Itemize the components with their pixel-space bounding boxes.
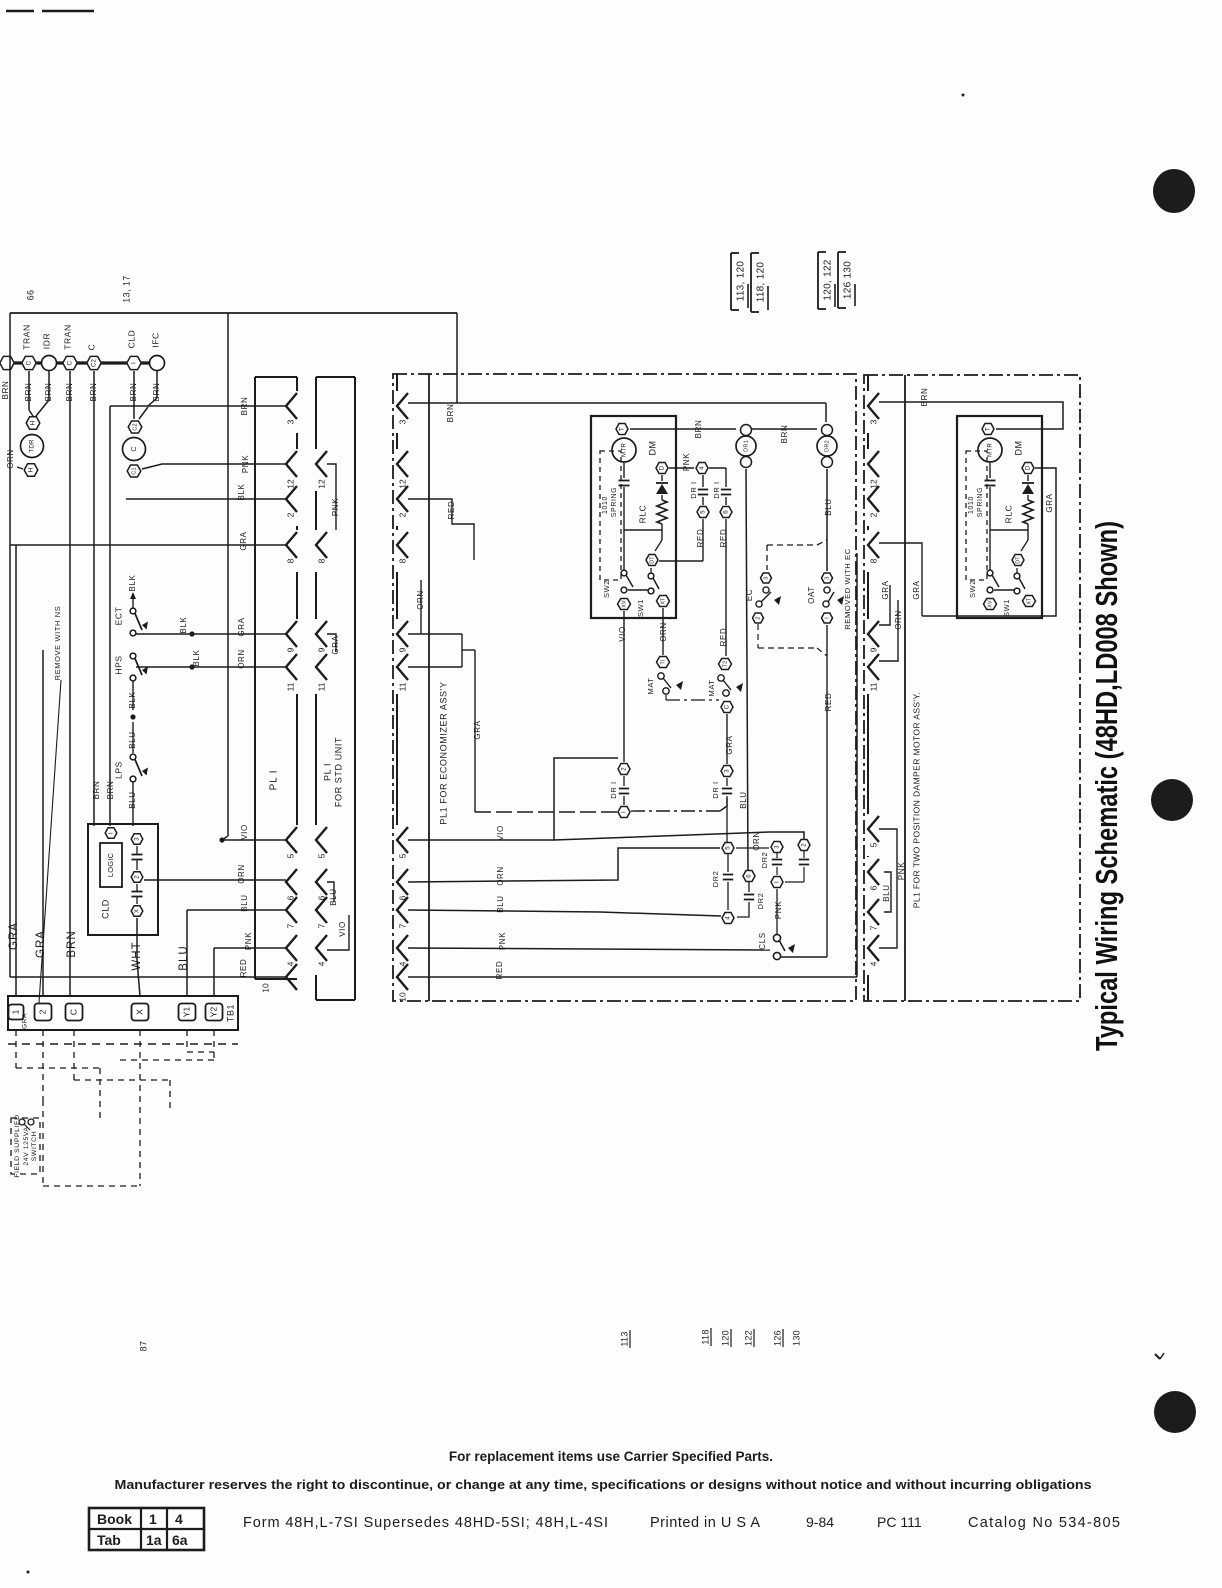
- hex 5 node: [697, 507, 709, 518]
- svg-text:3: 3: [135, 837, 141, 841]
- svg-text:I: I: [825, 617, 831, 619]
- svg-text:SW2: SW2: [968, 580, 977, 598]
- svg-text:113: 113: [619, 1331, 629, 1346]
- svg-text:130: 130: [791, 1330, 801, 1346]
- damper connector broken edge: [867, 375, 869, 391]
- svg-text:FIELD SUPPLIED: FIELD SUPPLIED: [14, 1114, 21, 1177]
- svg-text:SPRING: SPRING: [977, 487, 984, 517]
- wire motor to resistor bottom: [990, 529, 1028, 531]
- svg-text:1a: 1a: [146, 1532, 162, 1548]
- svg-text:66: 66: [25, 290, 35, 301]
- terminal 1: [9, 1005, 24, 1020]
- terminal D hex: [656, 463, 668, 474]
- svg-text:I: I: [131, 362, 138, 364]
- hex 1 below OAT: [822, 613, 833, 623]
- svg-text:6a: 6a: [172, 1532, 188, 1548]
- svg-text:2: 2: [285, 512, 295, 517]
- svg-text:9-84: 9-84: [806, 1514, 834, 1530]
- economizer connector broken edge: [396, 374, 398, 391]
- svg-text:DT: DT: [1015, 556, 1021, 564]
- terminal Y1: [179, 1004, 196, 1021]
- svg-text:7: 7: [316, 923, 326, 928]
- dashed wiring below TB1 - terminal X drop: [139, 1030, 141, 1186]
- dashed line below TB1: [8, 1043, 238, 1045]
- svg-text:LOGIC: LOGIC: [106, 852, 115, 877]
- svg-text:DR I: DR I: [609, 781, 618, 798]
- damper wire pin6 pin7 bracket: [884, 872, 891, 912]
- connector PL1 std broken edge: [315, 377, 317, 449]
- svg-text:126 130: 126 130: [843, 261, 854, 299]
- wire XT down ORN to MAT1: [662, 608, 664, 655]
- hex 1 node lower: [618, 807, 630, 818]
- DR1 contact capacitor a: [702, 475, 704, 487]
- svg-text:GRA: GRA: [8, 922, 20, 950]
- hex 4 node bottom: [722, 913, 734, 924]
- svg-text:VIO: VIO: [618, 626, 627, 642]
- svg-text:XV: XV: [987, 600, 993, 608]
- svg-text:7: 7: [397, 923, 407, 928]
- hex 3 node mid: [721, 766, 733, 777]
- svg-text:MAT: MAT: [707, 679, 716, 696]
- svg-text:C: C: [86, 344, 96, 351]
- svg-text:BLU: BLU: [128, 731, 137, 748]
- svg-text:DR2: DR2: [711, 871, 720, 888]
- hex 6 node bottom: [743, 871, 755, 882]
- terminal C: [66, 1004, 83, 1021]
- terminal T hex: [982, 424, 994, 435]
- svg-text:IFC: IFC: [150, 332, 160, 348]
- svg-text:11: 11: [397, 682, 407, 691]
- eco wire pin10 RED: [408, 976, 857, 978]
- svg-text:RED: RED: [447, 501, 456, 520]
- svg-text:GRA: GRA: [331, 635, 340, 654]
- svg-text:BRN: BRN: [240, 397, 249, 416]
- box LOGIC: [100, 843, 122, 887]
- wire pin3 down into DR2: [825, 403, 827, 422]
- svg-text:122: 122: [743, 1330, 753, 1346]
- terminal T hex: [616, 424, 628, 435]
- dashed wiring below TB1 - terminal Y1 drop: [186, 1030, 188, 1052]
- motor MTR: [612, 438, 636, 462]
- svg-text:I: I: [775, 881, 781, 883]
- svg-text:PL I: PL I: [269, 770, 280, 791]
- DR2 capacitor under hex5: [727, 854, 729, 872]
- svg-text:PNK: PNK: [244, 932, 253, 950]
- svg-text:10: 10: [260, 983, 270, 993]
- svg-text:BLU: BLU: [128, 791, 137, 808]
- terminal C hex lower: [721, 702, 733, 713]
- svg-text:ORN: ORN: [659, 622, 668, 642]
- node hex 1 in CLD box: [105, 828, 117, 838]
- svg-text:SPRING: SPRING: [611, 487, 618, 517]
- BLU jumper std pin 6: [327, 882, 334, 902]
- svg-text:TDR: TDR: [29, 439, 36, 453]
- wire GRA to PL1 pin 8: [10, 544, 286, 546]
- svg-text:RED: RED: [719, 529, 728, 548]
- svg-text:For replacement items use Carr: For replacement items use Carrier Specif…: [449, 1449, 773, 1464]
- contactor coil cluster C2 C C1: [128, 421, 142, 433]
- svg-text:BLK: BLK: [128, 574, 137, 591]
- svg-text:OAT: OAT: [807, 586, 816, 604]
- eco pins 9 11 junction: [408, 633, 462, 635]
- svg-text:C1: C1: [131, 467, 137, 475]
- wire branch down to CLD box hex 1: [110, 405, 148, 407]
- svg-text:BLK: BLK: [237, 483, 246, 500]
- svg-text:Book: Book: [97, 1511, 132, 1527]
- relay DR1 stack: [741, 425, 752, 436]
- connector PL1 broken edge: [296, 377, 298, 391]
- wire DR2 bottom drop BLU to OAT: [826, 469, 828, 571]
- svg-text:ORN: ORN: [237, 864, 246, 884]
- svg-text:I: I: [622, 811, 628, 813]
- svg-text:DR2: DR2: [760, 852, 769, 869]
- page tick mark top left: [6, 10, 34, 13]
- terminal XT hex: [1023, 596, 1036, 607]
- svg-text:1010: 1010: [602, 496, 609, 514]
- svg-text:6: 6: [868, 885, 878, 890]
- svg-text:I: I: [109, 832, 115, 834]
- svg-text:8: 8: [397, 558, 407, 563]
- EC OAT dashed box: [766, 545, 768, 570]
- svg-text:RLC: RLC: [1003, 505, 1013, 524]
- svg-text:12: 12: [316, 479, 326, 489]
- book tab table: [89, 1508, 204, 1550]
- svg-text:5: 5: [868, 842, 878, 847]
- diode: [1027, 475, 1029, 481]
- terminal DT hex: [1012, 555, 1024, 566]
- svg-text:ORN: ORN: [894, 610, 903, 630]
- PNK jumper on std pin 12: [327, 464, 336, 530]
- svg-text:MTR: MTR: [987, 443, 994, 457]
- terminal T2 hex: [719, 659, 732, 670]
- svg-text:CLD: CLD: [100, 899, 110, 919]
- svg-text:1010: 1010: [968, 496, 975, 514]
- wire stub above ECT with arrow: [132, 594, 134, 608]
- wire C2 down to CLD box BRN: [93, 371, 95, 826]
- relay TDR with H contacts: [26, 417, 40, 429]
- wire LPS down to CLD box: [132, 782, 134, 826]
- svg-text:BLK: BLK: [128, 691, 137, 708]
- svg-text:XT: XT: [660, 597, 666, 605]
- terminal T1 hex: [657, 657, 670, 668]
- svg-text:BRN: BRN: [446, 404, 455, 423]
- wire DR1 bottom long drop BLU: [746, 469, 748, 870]
- svg-text:RED: RED: [824, 693, 833, 712]
- svg-text:4: 4: [868, 961, 878, 966]
- svg-text:TRAN: TRAN: [21, 324, 31, 350]
- svg-text:4: 4: [700, 466, 706, 470]
- svg-text:118: 118: [700, 1329, 710, 1344]
- motor MTR: [978, 438, 1002, 462]
- svg-text:ECT: ECT: [113, 607, 123, 626]
- 24v bus wire: [6, 361, 164, 364]
- svg-text:ORN: ORN: [237, 649, 246, 669]
- svg-text:H: H: [28, 467, 35, 472]
- wire hex6 down RED to MAT2: [725, 519, 727, 656]
- svg-text:CLD: CLD: [126, 330, 136, 349]
- svg-text:C2: C2: [132, 423, 138, 431]
- dashed wiring below TB1 - terminal 1 drop: [15, 1030, 17, 1068]
- contactor C (TRAN): [22, 356, 36, 369]
- svg-text:87: 87: [138, 1341, 148, 1352]
- svg-text:IDR: IDR: [41, 333, 51, 349]
- svg-text:7: 7: [285, 923, 295, 928]
- svg-text:DM: DM: [1013, 441, 1023, 456]
- dashed wire below EC to OAT drop: [757, 624, 759, 648]
- wire hex1 down PNK to CLS: [776, 889, 778, 934]
- terminal X: [132, 1004, 149, 1021]
- svg-text:PC 111: PC 111: [877, 1514, 922, 1530]
- svg-text:2: 2: [622, 767, 628, 771]
- dashed switch box FIELD SUPPLIED: [11, 1118, 40, 1174]
- stray speck bottom left: [27, 1571, 30, 1574]
- dash-dot wire left of hex1: [475, 811, 617, 813]
- trunk right vertical wire to economizer pin 3: [456, 313, 458, 403]
- reference bracket 126 130: [837, 252, 839, 308]
- wire BRN to PL1 pin 3: [148, 405, 286, 407]
- svg-text:4: 4: [726, 916, 732, 920]
- svg-text:RED: RED: [719, 628, 728, 647]
- svg-text:13, 17: 13, 17: [121, 275, 131, 302]
- wire X hex down to TB1 X terminal: [136, 918, 138, 960]
- reference bracket 113, 120: [730, 253, 732, 310]
- svg-text:DR I: DR I: [711, 781, 720, 798]
- stray speck top middle: [962, 94, 965, 97]
- svg-text:VIO: VIO: [338, 921, 347, 937]
- svg-text:PNK: PNK: [682, 453, 691, 471]
- svg-text:X: X: [134, 1009, 144, 1015]
- connector PL1 outline: [254, 377, 256, 979]
- svg-text:2: 2: [756, 616, 762, 619]
- svg-text:6: 6: [747, 874, 753, 878]
- wire D hex to hex 4 PNK: [669, 467, 694, 469]
- svg-text:5: 5: [701, 510, 707, 514]
- junction dot BLK on pin9 wire: [189, 631, 194, 636]
- eco wire pin3 BRN: [408, 402, 826, 404]
- svg-text:126: 126: [772, 1330, 782, 1346]
- DR2 capacitor under hex3: [776, 853, 778, 858]
- registration dot 1: [1153, 169, 1195, 213]
- svg-text:11: 11: [868, 682, 878, 691]
- svg-text:5: 5: [285, 853, 295, 858]
- contactor C (TRAN) 2: [63, 356, 77, 369]
- damper wire D hex GRA loop: [922, 468, 1056, 616]
- svg-text:XV: XV: [621, 600, 627, 608]
- trunk left vertical wire: [9, 313, 11, 977]
- DR2 capacitor under hex6: [748, 882, 750, 892]
- wire GRA to terminal 2: [42, 650, 44, 996]
- svg-text:11: 11: [285, 682, 295, 691]
- svg-text:DR2: DR2: [824, 440, 830, 452]
- junction dot BLK on pin11 wire: [189, 664, 194, 669]
- damper inner solid rail: [904, 375, 906, 1001]
- registration dot 2: [1151, 779, 1193, 821]
- svg-text:3: 3: [285, 419, 295, 424]
- svg-text:GRA: GRA: [912, 580, 921, 599]
- svg-text:TRAN: TRAN: [62, 324, 72, 350]
- svg-text:118, 120: 118, 120: [756, 262, 767, 303]
- svg-text:7: 7: [868, 925, 878, 930]
- svg-text:2: 2: [802, 843, 808, 847]
- svg-text:3: 3: [825, 576, 831, 579]
- wire HPS to PL1 pin 11 ORN: [136, 666, 286, 668]
- eco RED jumper pin2: [408, 499, 474, 560]
- svg-text:RLC: RLC: [637, 505, 647, 524]
- wire C1 to PL1 pin 12 PNK: [142, 464, 286, 469]
- economizer box border: [393, 374, 856, 1001]
- svg-text:ORN: ORN: [496, 866, 505, 886]
- connector PL1 pins: [286, 393, 297, 419]
- svg-text:DR I: DR I: [689, 481, 698, 498]
- eco wire T hex to DR1: [630, 428, 736, 430]
- svg-text:PL1 FOR TWO POSITION DAMPER MO: PL1 FOR TWO POSITION DAMPER MOTOR ASS'Y.: [911, 692, 921, 908]
- svg-text:3: 3: [868, 419, 878, 424]
- svg-text:8: 8: [285, 558, 295, 563]
- svg-text:PNK: PNK: [774, 901, 783, 919]
- svg-text:HPS: HPS: [113, 655, 123, 674]
- damper motor box border: [864, 375, 1080, 1001]
- node hex 2 in CLD box: [131, 872, 143, 882]
- svg-text:REMOVE WITH NS: REMOVE WITH NS: [53, 606, 62, 681]
- svg-text:9: 9: [285, 647, 295, 652]
- svg-text:BLU: BLU: [882, 884, 891, 901]
- wire IDR down to TDR relay: [48, 371, 50, 400]
- wire CLD hex down to C contactor coil: [133, 371, 135, 419]
- svg-text:VIO: VIO: [496, 825, 505, 841]
- spring return dashed box: [966, 451, 987, 580]
- svg-text:MTR: MTR: [621, 443, 628, 457]
- svg-text:GRA: GRA: [239, 531, 248, 550]
- svg-text:5: 5: [726, 846, 732, 850]
- dashed link horizontal 1068: [16, 1067, 100, 1069]
- svg-text:GRA: GRA: [22, 1013, 29, 1029]
- wire OAT hex1 down RED: [826, 625, 828, 957]
- svg-text:BLU: BLU: [240, 894, 249, 911]
- hex 2 node bottom row: [798, 840, 810, 851]
- wire C hex down GRA: [726, 714, 728, 764]
- svg-text:4: 4: [285, 961, 295, 966]
- svg-text:GRA: GRA: [725, 735, 734, 754]
- svg-text:RED: RED: [239, 959, 248, 978]
- svg-text:Printed in U S A: Printed in U S A: [650, 1515, 760, 1531]
- svg-text:6: 6: [724, 510, 730, 514]
- svg-text:3: 3: [764, 576, 770, 579]
- capacitor in CLD box lower: [132, 891, 143, 893]
- svg-text:BRN: BRN: [66, 930, 78, 957]
- terminal D hex: [1022, 463, 1034, 474]
- wire hex2 to PL1 pin 6 ORN: [144, 879, 286, 881]
- hex 6 node: [720, 507, 732, 518]
- svg-text:3: 3: [775, 845, 781, 849]
- eco GRA drop wire: [474, 650, 476, 812]
- svg-text:ORN: ORN: [416, 590, 425, 610]
- svg-text:BRN: BRN: [780, 425, 789, 444]
- wire RED to PL1 pin 10: [10, 976, 286, 978]
- svg-text:Manufacturer reserves the righ: Manufacturer reserves the right to disco…: [115, 1477, 1092, 1492]
- svg-text:PL1 FOR ECONOMIZER ASS'Y: PL1 FOR ECONOMIZER ASS'Y: [438, 681, 448, 824]
- connector PL1 std pins: [316, 451, 327, 477]
- svg-text:DM: DM: [647, 441, 657, 456]
- svg-text:DR I: DR I: [712, 481, 721, 498]
- damper wire pin8 GRA: [879, 543, 922, 616]
- terminal 2: [35, 1004, 52, 1021]
- dashed wiring below TB1 - terminal 2 drop: [42, 1030, 44, 1100]
- node IDR: [42, 356, 57, 371]
- svg-text:Typical Wiring Schematic (48HD: Typical Wiring Schematic (48HD,LD008 Sho…: [1089, 521, 1124, 1051]
- svg-text:2: 2: [868, 512, 878, 517]
- DR1 capacitor mid: [726, 778, 728, 786]
- hex 2 node lower: [618, 764, 630, 775]
- wire GRA to terminal 1: [15, 545, 17, 996]
- svg-text:BRN: BRN: [106, 781, 115, 800]
- svg-text:GRA: GRA: [881, 580, 890, 599]
- svg-text:BLK: BLK: [179, 616, 188, 633]
- box CLD control: [88, 824, 158, 935]
- junction dot VIO: [219, 837, 224, 842]
- wire ECT to PL1 pin 9 GRA: [136, 633, 286, 635]
- capacitor in CLD box upper: [132, 854, 143, 856]
- svg-text:VIO: VIO: [240, 824, 249, 840]
- svg-text:9: 9: [316, 647, 326, 652]
- svg-text:C: C: [725, 704, 731, 709]
- eco wire DR1 to DR2: [752, 428, 817, 430]
- damper motor DM box: [591, 416, 676, 618]
- svg-text:X: X: [135, 909, 141, 913]
- svg-text:113, 120: 113, 120: [736, 261, 747, 302]
- svg-text:Tab: Tab: [97, 1532, 121, 1548]
- svg-text:BLK: BLK: [192, 649, 201, 666]
- terminal block TB1 outline: [8, 996, 238, 1030]
- svg-text:EC: EC: [745, 589, 754, 601]
- svg-text:C: C: [67, 360, 74, 365]
- svg-text:3: 3: [397, 419, 407, 424]
- dashed wiring below TB1 - terminal Y2 drop: [213, 1030, 215, 1060]
- svg-text:C: C: [68, 1009, 78, 1015]
- relay DR2 stack: [822, 425, 833, 436]
- svg-text:C: C: [131, 446, 138, 451]
- riser wire right of economizer box: [856, 553, 858, 977]
- svg-text:XT: XT: [1026, 597, 1032, 605]
- svg-text:GRA: GRA: [1045, 493, 1054, 512]
- terminal XT hex: [657, 596, 670, 607]
- svg-text:WHT: WHT: [131, 941, 143, 970]
- svg-text:4: 4: [175, 1511, 183, 1527]
- svg-text:D: D: [1026, 465, 1032, 470]
- capacitor under hex2: [803, 851, 805, 858]
- wire hex5 down RED: [702, 519, 704, 561]
- svg-text:120: 120: [720, 1330, 730, 1346]
- svg-text:TI: TI: [660, 659, 666, 664]
- svg-text:5: 5: [397, 853, 407, 858]
- hex 2 below EC: [753, 613, 764, 623]
- terminal Y2: [206, 1004, 223, 1021]
- dashed wire bottom run: [43, 1185, 140, 1187]
- svg-text:9: 9: [868, 647, 878, 652]
- wire hex5 to hex3: [736, 847, 769, 849]
- svg-text:2: 2: [397, 512, 407, 517]
- DR1 capacitor lower: [623, 776, 625, 786]
- damper wire pin9 elbow: [879, 585, 890, 625]
- svg-text:8: 8: [868, 558, 878, 563]
- connector PL1 std unit outline: [354, 377, 356, 1000]
- dashed wire from field switch down: [42, 1100, 44, 1186]
- DR1 contact capacitor b: [725, 468, 727, 487]
- dash-dot wire MAT1 to MAT2: [665, 695, 667, 700]
- wire C2 coil elbow to BRN wire: [139, 407, 148, 419]
- hex 1 node bottom: [771, 877, 783, 888]
- terminal DT hex: [646, 555, 658, 566]
- resistor RLC: [661, 495, 663, 500]
